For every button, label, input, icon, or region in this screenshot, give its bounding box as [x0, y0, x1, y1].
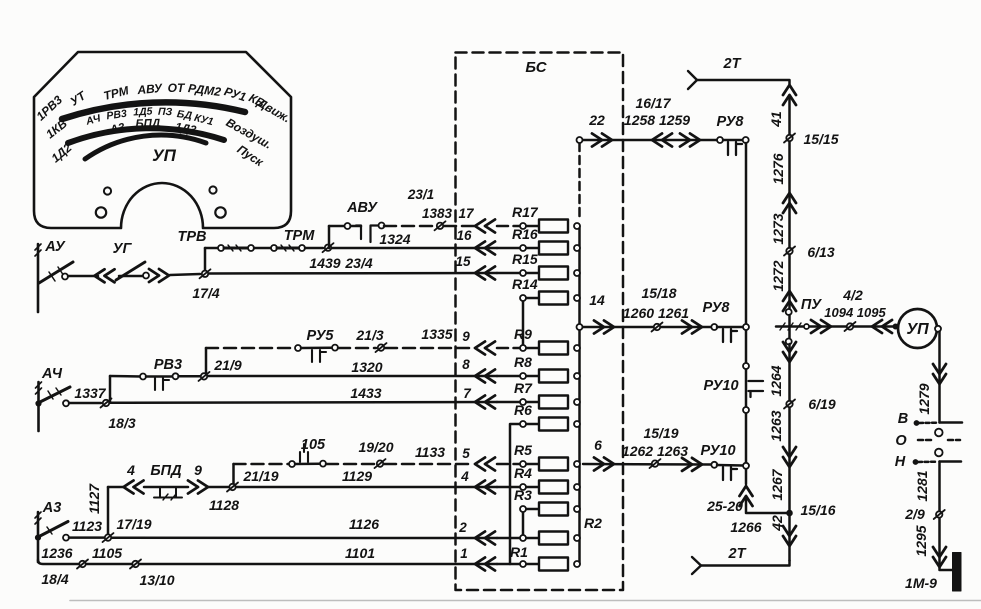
svg-text:2Т: 2Т	[728, 546, 747, 562]
svg-text:2: 2	[458, 520, 467, 535]
svg-text:25-20: 25-20	[706, 498, 743, 514]
svg-text:ТРМ: ТРМ	[102, 83, 131, 103]
svg-text:R14: R14	[512, 276, 538, 292]
svg-text:15/18: 15/18	[641, 285, 676, 301]
svg-text:5: 5	[462, 446, 470, 461]
svg-text:АУ: АУ	[44, 239, 66, 255]
svg-text:РУ8: РУ8	[702, 300, 730, 316]
svg-text:1272: 1272	[770, 260, 786, 291]
svg-text:9: 9	[194, 462, 202, 478]
svg-text:R7: R7	[514, 380, 533, 396]
svg-text:А3: А3	[42, 500, 62, 516]
svg-text:R1: R1	[510, 544, 528, 560]
svg-text:ПУ: ПУ	[801, 297, 822, 313]
svg-text:R17: R17	[512, 204, 539, 220]
svg-text:1295: 1295	[913, 525, 929, 556]
svg-text:1335: 1335	[421, 326, 452, 342]
svg-text:1267: 1267	[769, 468, 785, 500]
svg-text:О: О	[895, 433, 907, 449]
svg-text:7: 7	[463, 386, 472, 401]
svg-text:1129: 1129	[342, 468, 372, 484]
svg-text:15/15: 15/15	[803, 131, 838, 147]
svg-text:R15: R15	[512, 251, 538, 267]
svg-text:РДМ2: РДМ2	[187, 81, 222, 99]
svg-text:17/4: 17/4	[192, 285, 219, 301]
svg-text:R3: R3	[514, 487, 532, 503]
svg-text:18/4: 18/4	[41, 571, 68, 587]
svg-text:17: 17	[458, 206, 475, 221]
svg-text:4: 4	[460, 469, 469, 484]
svg-text:РУ5: РУ5	[306, 328, 334, 344]
svg-text:6: 6	[594, 437, 602, 453]
svg-text:1279: 1279	[916, 383, 932, 414]
svg-text:1Д5: 1Д5	[133, 105, 153, 118]
svg-text:18/3: 18/3	[108, 415, 135, 431]
svg-text:1123: 1123	[72, 518, 102, 534]
svg-text:1273: 1273	[770, 213, 786, 244]
svg-text:1236: 1236	[41, 545, 72, 561]
svg-text:15: 15	[455, 254, 471, 269]
svg-text:РВ3: РВ3	[106, 108, 128, 123]
svg-text:21/19: 21/19	[242, 468, 278, 484]
svg-text:1320: 1320	[351, 359, 382, 375]
svg-text:1126: 1126	[349, 516, 379, 532]
svg-text:РУ8: РУ8	[716, 114, 744, 130]
svg-text:41: 41	[768, 111, 784, 128]
svg-text:1433: 1433	[350, 385, 381, 401]
svg-text:УП: УП	[152, 146, 177, 165]
svg-text:15/19: 15/19	[643, 425, 678, 441]
svg-text:4/2: 4/2	[842, 287, 863, 303]
svg-text:1094 1095: 1094 1095	[824, 305, 886, 320]
svg-text:1101: 1101	[345, 545, 375, 561]
svg-text:19/20: 19/20	[358, 439, 393, 455]
svg-text:4: 4	[126, 462, 135, 478]
svg-text:ТРМ: ТРМ	[284, 228, 316, 244]
svg-text:15/16: 15/16	[800, 502, 835, 518]
svg-text:9: 9	[462, 329, 470, 344]
svg-text:1276: 1276	[770, 153, 786, 184]
svg-text:РУ10: РУ10	[703, 378, 738, 394]
svg-text:1383: 1383	[422, 206, 453, 221]
svg-text:14: 14	[589, 292, 605, 308]
svg-text:R2: R2	[584, 515, 602, 531]
svg-text:АВУ: АВУ	[136, 81, 164, 97]
svg-text:1281: 1281	[914, 470, 930, 501]
svg-text:22: 22	[588, 112, 605, 128]
svg-text:8: 8	[462, 357, 470, 372]
svg-text:ОТ: ОТ	[168, 81, 186, 95]
svg-text:БС: БС	[525, 59, 547, 76]
svg-text:105: 105	[301, 437, 326, 453]
svg-text:1258 1259: 1258 1259	[624, 112, 690, 128]
svg-text:6/13: 6/13	[807, 244, 834, 260]
svg-text:РВ3: РВ3	[154, 357, 182, 373]
svg-text:1: 1	[460, 546, 468, 561]
svg-text:R5: R5	[514, 442, 532, 458]
svg-text:УГ: УГ	[113, 241, 133, 257]
svg-text:АЧ: АЧ	[41, 366, 63, 382]
svg-text:R4: R4	[514, 465, 532, 481]
svg-text:1266: 1266	[730, 519, 761, 535]
svg-text:23/1: 23/1	[407, 187, 434, 202]
svg-text:РУ10: РУ10	[700, 443, 735, 459]
svg-text:16: 16	[456, 228, 472, 243]
svg-text:1127: 1127	[86, 483, 102, 514]
svg-text:1М-9: 1М-9	[905, 575, 937, 591]
svg-text:ПЗ: ПЗ	[158, 106, 173, 119]
svg-text:23/4: 23/4	[344, 255, 372, 271]
svg-text:А3: А3	[108, 122, 126, 137]
svg-text:ТРВ: ТРВ	[178, 229, 207, 245]
svg-text:1262 1263: 1262 1263	[622, 443, 688, 459]
svg-text:Движ.: Движ.	[254, 95, 293, 125]
svg-text:1260 1261: 1260 1261	[623, 305, 689, 321]
svg-text:R6: R6	[514, 402, 532, 418]
svg-text:2/9: 2/9	[904, 506, 925, 522]
svg-text:17/19: 17/19	[116, 516, 151, 532]
svg-text:16/17: 16/17	[635, 95, 671, 111]
svg-text:2Т: 2Т	[723, 56, 742, 72]
svg-text:6/19: 6/19	[808, 396, 835, 412]
svg-text:РУ1: РУ1	[222, 84, 248, 104]
svg-text:1263: 1263	[768, 410, 784, 441]
svg-text:1324: 1324	[379, 231, 410, 247]
svg-text:БД: БД	[176, 108, 193, 122]
svg-text:УП: УП	[906, 321, 929, 338]
svg-text:1128: 1128	[209, 497, 239, 513]
svg-text:42: 42	[769, 515, 785, 532]
svg-text:21/9: 21/9	[213, 357, 241, 373]
svg-text:БПД: БПД	[150, 463, 182, 479]
svg-text:R16: R16	[512, 226, 538, 242]
svg-text:Н: Н	[895, 454, 906, 470]
svg-text:1105: 1105	[92, 545, 122, 561]
svg-text:АВУ: АВУ	[346, 200, 378, 216]
svg-text:13/10: 13/10	[139, 572, 174, 588]
svg-text:1133: 1133	[415, 444, 445, 460]
svg-text:УТ: УТ	[68, 88, 90, 109]
svg-text:1337: 1337	[74, 385, 106, 401]
svg-text:1264: 1264	[768, 365, 784, 396]
svg-text:R8: R8	[514, 354, 532, 370]
svg-text:21/3: 21/3	[355, 327, 383, 343]
svg-text:R9: R9	[514, 326, 532, 342]
svg-text:1439: 1439	[309, 255, 340, 271]
svg-text:В: В	[898, 411, 908, 427]
svg-text:БПД: БПД	[135, 118, 160, 131]
